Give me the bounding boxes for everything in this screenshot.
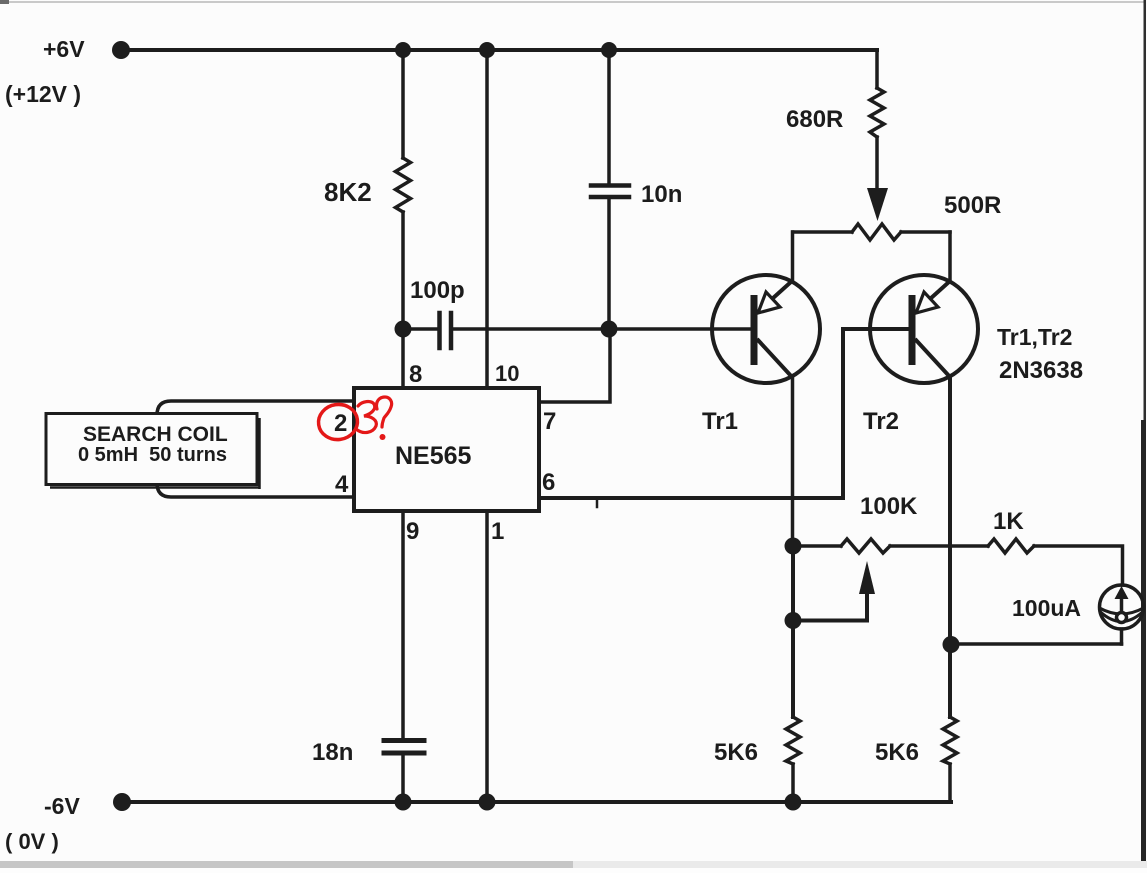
svg-text:1K: 1K <box>993 508 1024 535</box>
meter M 100uA <box>1100 585 1144 629</box>
transistor Q Tr1 <box>712 275 820 383</box>
capacitor C 100p <box>437 313 442 348</box>
svg-text:100K: 100K <box>860 493 918 520</box>
potentiometer 100K body <box>793 539 988 553</box>
page top edge line <box>0 1 1144 3</box>
svg-text:0 5mH 50 turns: 0 5mH 50 turns <box>78 444 227 466</box>
svg-text:10: 10 <box>495 361 519 386</box>
svg-text:8K2: 8K2 <box>324 177 372 207</box>
svg-text:Tr1,Tr2: Tr1,Tr2 <box>997 324 1072 350</box>
wire: 100K node down through wiper node to 5K6 <box>791 546 795 717</box>
transistor Q Tr2 <box>870 275 978 383</box>
page right border <box>1144 0 1147 420</box>
wire: top rail to 10n capacitor <box>607 50 611 184</box>
svg-text:5K6: 5K6 <box>875 739 919 766</box>
wire: node to 100p capacitor <box>403 327 437 331</box>
wire: 5K6 left to bottom rail <box>791 764 795 802</box>
wire: meter bottom stub <box>1120 629 1124 644</box>
wire: 500R right end down to Tr2 emitter <box>948 232 952 281</box>
node: meter return / Tr2 collector junction <box>943 636 960 653</box>
page bottom scanner band left <box>0 861 573 868</box>
svg-text:+6V: +6V <box>43 36 85 62</box>
resistor R 680R <box>870 88 884 137</box>
wire: NE565 pin 6 row to Tr2 base riser <box>539 329 909 498</box>
search coil loop <box>157 401 354 497</box>
wire: Tr1 collector down to 100K node <box>791 377 795 546</box>
wire: meter return to Tr2 collector node <box>951 642 1122 646</box>
svg-text:100p: 100p <box>410 277 465 304</box>
node: -6V rail left terminal <box>113 793 131 811</box>
node: Tr1 collector / 100K junction <box>785 538 802 555</box>
node: +6V rail left terminal <box>112 41 130 59</box>
node: rail / 5K6 junction <box>785 794 802 811</box>
tick mark under pin6 wire <box>596 500 599 507</box>
annotation: red handwritten 3 <box>356 402 376 433</box>
wire: top rail to 8K2 / pin 8 column <box>401 50 405 158</box>
svg-text:1: 1 <box>491 518 504 545</box>
resistor R 5K6 right <box>943 717 957 764</box>
svg-text:-6V: -6V <box>44 793 80 819</box>
annotation: red handwritten question mark <box>376 397 391 427</box>
svg-text:10n: 10n <box>641 181 682 208</box>
annotation: red circle around pin 2 <box>316 402 359 442</box>
node: rail / pin1 junction <box>479 794 496 811</box>
svg-text:680R: 680R <box>786 106 843 133</box>
svg-text:SEARCH COIL: SEARCH COIL <box>83 423 228 446</box>
wire: +6V top supply rail <box>118 48 877 52</box>
resistor R 5K6 left <box>786 717 800 764</box>
svg-text:7: 7 <box>543 408 556 435</box>
svg-text:4: 4 <box>335 471 349 498</box>
potentiometer 500R body <box>793 224 950 240</box>
wire: 100p to node under 10n <box>453 327 609 331</box>
wire: wiper node to 100K wiper arrow <box>793 593 867 621</box>
node: rail / 10n junction <box>601 42 617 58</box>
wire: NE565 pin 1 to bottom rail <box>485 511 489 802</box>
wire: 1K to meter drop <box>1034 546 1123 585</box>
svg-text:(+12V ): (+12V ) <box>5 81 81 107</box>
arrow: 680R wiper feed <box>867 188 888 221</box>
node: rail / 8K2 junction <box>395 42 411 58</box>
svg-text:Tr1: Tr1 <box>702 408 738 435</box>
svg-text:6: 6 <box>542 469 555 496</box>
resistor R 8K2 <box>396 158 411 212</box>
op-amp U1 NE565 box <box>354 388 539 511</box>
search coil label box <box>46 414 260 490</box>
svg-text:2: 2 <box>334 410 347 437</box>
wire: node to Tr1 base <box>609 327 751 331</box>
wire: Tr2 collector column down to bottom rail corner <box>948 377 952 717</box>
svg-text:NE565: NE565 <box>395 442 472 470</box>
svg-text:9: 9 <box>406 518 419 545</box>
wire: 680R to wiper arrow of 500R <box>875 137 879 190</box>
wire: 500R left end down to Tr1 emitter <box>791 232 795 281</box>
annotation: red question mark dot <box>380 434 386 440</box>
wire: 18n to bottom rail <box>401 755 405 802</box>
node: 8K2 / 100p / pin8 junction <box>395 321 412 338</box>
wire: 8K2 bottom to node at 100p row <box>401 212 405 329</box>
wire: 680R branch drop from rail <box>875 50 879 88</box>
svg-text:5K6: 5K6 <box>714 739 758 766</box>
wire: NE565 pin 7 to VCO node <box>539 329 610 402</box>
wire: 5K6 right to bottom rail corner <box>948 764 952 802</box>
node: rail / 18n junction <box>395 794 412 811</box>
capacitor C 10n <box>591 183 629 188</box>
wire: node to NE565 pin 8 <box>401 329 405 390</box>
wire: 10n bottom to node on base row <box>607 199 611 329</box>
svg-text:8: 8 <box>409 361 422 388</box>
node: 10n / pin7 / Tr1 base junction <box>601 321 618 338</box>
wire: -6V bottom supply rail <box>122 800 951 804</box>
svg-text:18n: 18n <box>312 739 353 766</box>
svg-text:500R: 500R <box>944 192 1001 219</box>
arrow: 100K wiper <box>859 561 875 594</box>
svg-text:( 0V ): ( 0V ) <box>5 829 59 854</box>
svg-text:100uA: 100uA <box>1012 595 1081 621</box>
svg-text:Tr2: Tr2 <box>863 408 899 435</box>
wire: top rail to NE565 pin 10 column <box>485 50 489 390</box>
wire: NE565 pin 9 to 18n <box>401 511 405 738</box>
node: rail / pin10 junction <box>479 42 495 58</box>
svg-text:2N3638: 2N3638 <box>999 357 1083 384</box>
capacitor C 18n <box>384 738 424 743</box>
page bottom scanner band right <box>573 861 1147 868</box>
resistor R 1K <box>988 539 1034 553</box>
node: wiper junction <box>785 612 802 629</box>
